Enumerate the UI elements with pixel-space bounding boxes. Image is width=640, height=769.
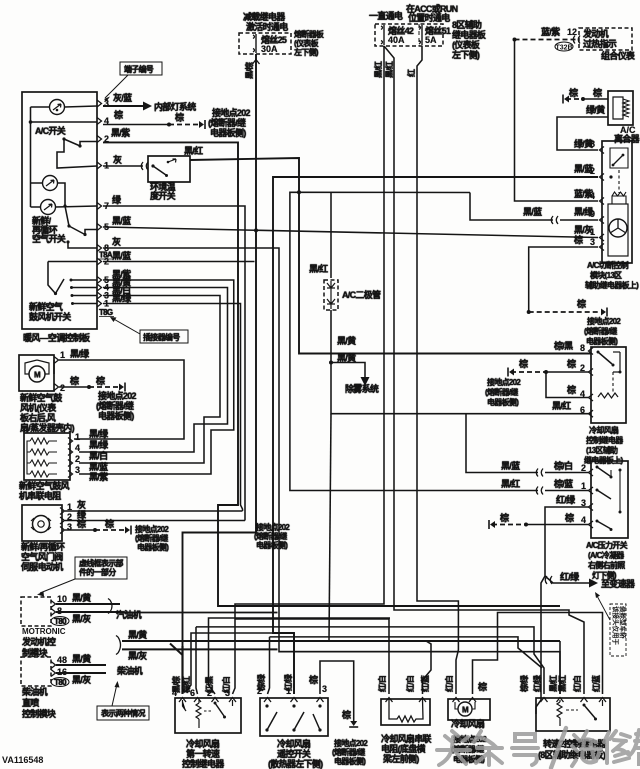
panel caption 暖风-空调控制板 xyxy=(23,332,91,343)
svg-text:灯下侧): 灯下侧) xyxy=(592,570,617,580)
svg-text:表示两种情况: 表示两种情况 xyxy=(100,708,145,718)
fan terminals xyxy=(453,698,477,703)
svg-text:继电器板: 继电器板 xyxy=(452,29,487,40)
bus wire y633 (pin2 black/blue trunk) to remote switch pin 1 xyxy=(191,632,294,634)
remote switch pin 1 xyxy=(283,633,298,702)
A/C diode 二极管 (dashed box) xyxy=(324,280,381,310)
bus y651.7 connecting pin8 trunk, engine bus corner, resistor and fan xyxy=(279,651,458,653)
svg-text:黑/蓝: 黑/蓝 xyxy=(89,461,108,472)
label: 冷却风扇第一转速控制继电器 xyxy=(182,738,225,769)
module pin 2 black/blue long wire to staircase xyxy=(187,163,611,694)
svg-text:离合器: 离合器 xyxy=(614,133,640,144)
label: MOTRONIC 发动机控制模块 xyxy=(21,627,66,658)
svg-text:2: 2 xyxy=(60,383,65,393)
svg-text:黑/红: 黑/红 xyxy=(373,61,383,78)
bus wire y612.5 petrol grey wire to grey trunk xyxy=(120,612,278,614)
svg-text:棕: 棕 xyxy=(518,358,528,369)
label: 8区辅助继电器板(仪表板左下侧) xyxy=(451,19,487,60)
svg-text:遥控开关: 遥控开关 xyxy=(277,748,311,759)
svg-text:黑/绿: 黑/绿 xyxy=(70,348,90,359)
svg-text:4: 4 xyxy=(581,515,586,525)
label: 转速2控制继电器(8区辅助继电器板) xyxy=(538,738,607,760)
svg-text:发动机: 发动机 xyxy=(582,28,609,39)
svg-text:左下侧): 左下侧) xyxy=(451,49,480,60)
pressure switch pin 1: black/red -> brown/blue xyxy=(103,192,593,494)
wire: panel pin 7 green trunk down to servo pin 2 xyxy=(103,206,245,521)
remote switch pin 2 from bus y636.9 xyxy=(256,637,542,702)
junction dot on S25 trunk at pin-1 wire xyxy=(254,228,258,232)
svg-text:6: 6 xyxy=(190,688,195,698)
svg-text:黑/蓝: 黑/蓝 xyxy=(523,206,542,217)
svg-text:(熔断器/继: (熔断器/继 xyxy=(135,533,168,543)
resistor terminals 1,4,2,3 with staircase wires up to panel xyxy=(68,432,80,478)
wire: resistor pin3 to panel pin 5b (black/purple) xyxy=(79,280,234,474)
fresh air blower motor 新鲜空气鼓风机 xyxy=(19,355,54,391)
svg-text:黑/绿: 黑/绿 xyxy=(112,293,132,304)
svg-text:棕: 棕 xyxy=(568,87,578,98)
svg-text:黑/灰: 黑/灰 xyxy=(72,674,91,685)
svg-text:8区辅助: 8区辅助 xyxy=(452,19,482,30)
svg-text:10: 10 xyxy=(57,594,67,604)
petrol wires end stubs before brace xyxy=(119,604,121,612)
label: 减载继电器激活时通电 xyxy=(243,11,288,32)
bus wire y626.9 relay1 pin6 feed and relay2 pin1 diagonal xyxy=(196,627,544,694)
fuse S42 and S51 box (dashed) xyxy=(375,24,451,46)
svg-text:控制继电器: 控制继电器 xyxy=(182,758,225,769)
note box: vertical text 该连接头仅用于(自动变速器车上) xyxy=(595,592,628,656)
svg-text:(熔断器/继: (熔断器/继 xyxy=(96,400,134,411)
svg-text:装舱型车轿: 装舱型车轿 xyxy=(619,605,628,639)
cooling fan speed-2 relay box (8区辅助继电器板) xyxy=(536,698,610,731)
branch: red/green to transmission 至变速器 xyxy=(545,571,636,589)
engine overheat indicator box (dashed) 发动机过热指示 xyxy=(579,28,632,50)
wires lamps 2,3 to terminal 7 row xyxy=(31,183,98,208)
svg-text:黑/绿: 黑/绿 xyxy=(89,439,109,450)
svg-text:4: 4 xyxy=(580,389,585,399)
diesel pin 16 black/grey xyxy=(51,667,106,685)
petrol bus pair black/yellow black/grey xyxy=(122,629,560,694)
A/C cutoff control module box xyxy=(602,141,632,263)
svg-text:新鲜空气鼓: 新鲜空气鼓 xyxy=(20,392,63,403)
cooling fan motor box 冷却风扇 xyxy=(448,699,490,720)
svg-text:黑/红: 黑/红 xyxy=(184,145,203,156)
wire: resistor right pin up to bus y651.7 xyxy=(423,641,432,694)
fresh air blower series resistor 新鲜空气鼓风机串联电阻 xyxy=(24,433,70,480)
fresh/recirculation air switch 新鲜/再循环空气开关 xyxy=(32,215,66,244)
svg-text:1: 1 xyxy=(75,432,80,442)
svg-text:直喷: 直喷 xyxy=(22,697,39,708)
label: A/C压力开关(A/C冷凝器右侧右前照灯下侧) xyxy=(586,540,628,580)
svg-text:30A: 30A xyxy=(261,44,278,54)
plate number VA116548 xyxy=(2,755,43,765)
svg-text:A/C开关: A/C开关 xyxy=(35,125,66,136)
svg-text:黑/红: 黑/红 xyxy=(384,61,394,78)
svg-text:新鲜空气鼓风: 新鲜空气鼓风 xyxy=(19,480,70,491)
svg-text:继电器板上): 继电器板上) xyxy=(584,455,623,465)
label: 在ACC或RUN位置时通电 xyxy=(406,3,458,23)
svg-text:9: 9 xyxy=(590,209,595,219)
note box 虚线框表示部件的一部分 with arrow xyxy=(37,557,127,597)
wire: blue/purple trunk down to A/C cutoff module pin 4 xyxy=(515,40,599,202)
svg-text:红/白: 红/白 xyxy=(405,675,415,692)
wire y619 branch to series resistor left pin xyxy=(235,619,389,694)
svg-text:黑/黄: 黑/黄 xyxy=(337,352,356,363)
wire: fan left pin up joining S51 drop xyxy=(456,650,458,694)
svg-text:2: 2 xyxy=(590,166,595,176)
label: 冷却风扇遥控开关(散热器左下侧) xyxy=(268,738,323,769)
wire: relay1 pin 6 vertical xyxy=(194,698,201,703)
relay2 terminals xyxy=(541,698,607,703)
A/C clutch 离合器 box with coil xyxy=(608,91,640,144)
svg-text:黑/黄: 黑/黄 xyxy=(72,653,91,664)
svg-text:接地点202: 接地点202 xyxy=(256,522,290,532)
svg-text:(熔断器/继: (熔断器/继 xyxy=(208,117,246,128)
svg-text:T32B: T32B xyxy=(555,45,572,52)
MOTRONIC pin 10 black/yellow xyxy=(51,592,120,608)
wire: fuse S25 output trunk (black/brown) down to staircase xyxy=(183,54,260,646)
svg-text:1: 1 xyxy=(590,227,595,237)
svg-text:冷却风扇: 冷却风扇 xyxy=(589,425,619,435)
label: 接地点202(熔断器/继电器板侧) right mid xyxy=(584,316,621,346)
svg-text:冷却风扇: 冷却风扇 xyxy=(451,718,485,729)
svg-text:接地点202: 接地点202 xyxy=(587,316,621,326)
wire: panel pin1b black/green staircase down xyxy=(103,304,243,512)
svg-text:灰/蓝: 灰/蓝 xyxy=(113,92,132,103)
wire: black/red branch down through A/C diode xyxy=(309,193,331,279)
blower switch 新鲜空气鼓风机开关 xyxy=(48,262,97,296)
svg-text:辅助继电器板上): 辅助继电器板上) xyxy=(585,280,639,290)
series resistor terminals with arrows xyxy=(386,698,427,703)
svg-text:绿/黄: 绿/黄 xyxy=(586,104,605,115)
pressure switch pin 2: black/blue -> brown/white xyxy=(466,414,593,477)
wire: terminal 2 black/purple trunk down staircase to relay2 pin 4 xyxy=(103,142,560,606)
brace before bus labels xyxy=(116,636,121,655)
svg-text:电器板侧): 电器板侧) xyxy=(256,540,288,550)
connector T32B xyxy=(555,42,573,52)
svg-text:T80: T80 xyxy=(54,617,67,626)
svg-text:6: 6 xyxy=(580,405,585,415)
svg-text:黑/红: 黑/红 xyxy=(309,263,328,274)
svg-text:冷却风扇串联: 冷却风扇串联 xyxy=(381,733,433,744)
svg-text:灰: 灰 xyxy=(113,154,122,165)
A/C switch 开关 xyxy=(35,125,82,148)
svg-text:过热指示: 过热指示 xyxy=(583,38,617,49)
svg-text:黑/紫: 黑/紫 xyxy=(89,471,108,482)
svg-text:除雾系统: 除雾系统 xyxy=(345,383,379,394)
svg-text:接地点202: 接地点202 xyxy=(98,390,137,401)
servo pin 2 green wire right joins trunk xyxy=(60,509,245,524)
svg-text:M: M xyxy=(462,706,469,715)
svg-text:黑/黄: 黑/黄 xyxy=(72,592,91,603)
svg-text:2: 2 xyxy=(580,363,585,373)
svg-text:第一转速: 第一转速 xyxy=(186,748,220,759)
svg-text:红/蓝: 红/蓝 xyxy=(591,675,601,692)
svg-text:A/C二极管: A/C二极管 xyxy=(342,289,381,300)
svg-text:3: 3 xyxy=(322,684,327,694)
wire: trunk x279 (panel pin 8 grey) down to bus y651.7 xyxy=(103,248,560,694)
label: 接地点202(熔断器/继电器板侧) bottom center xyxy=(332,738,368,766)
svg-text:2: 2 xyxy=(207,688,212,698)
svg-text:A/C压力开关: A/C压力开关 xyxy=(586,540,628,550)
svg-text:电器板侧): 电器板侧) xyxy=(487,397,519,407)
svg-text:减载继电器: 减载继电器 xyxy=(243,11,286,22)
relay pin 2 brown from ground 202 xyxy=(508,358,593,377)
wire: fan right pin brown up and over to relay2 pin 4 xyxy=(473,613,603,695)
cooling fan control relay box 冷却风扇控制继电器 xyxy=(591,347,626,423)
svg-text:接地点202: 接地点202 xyxy=(487,377,521,387)
svg-text:虚线框表示部: 虚线框表示部 xyxy=(79,558,123,568)
svg-text:电器板侧): 电器板侧) xyxy=(210,127,246,138)
svg-text:电器板侧): 电器板侧) xyxy=(98,410,134,421)
svg-text:T80: T80 xyxy=(54,678,67,687)
svg-text:黑/红: 黑/红 xyxy=(501,478,520,489)
wire: diode output down to demister junction xyxy=(329,310,591,641)
wire labels between resistor and staircase xyxy=(89,428,109,482)
label: 接地点202(熔断器/继电器板侧) servo xyxy=(135,524,169,552)
wire: green/yellow from clutch to cutoff module pin 8 xyxy=(557,104,608,150)
svg-text:(熔断器/继: (熔断器/继 xyxy=(485,387,518,397)
svg-text:接地点202: 接地点202 xyxy=(212,107,251,118)
note box 表示两种情况 with arrow xyxy=(97,681,149,720)
ground point 202 (brown, dashed) for clutch xyxy=(563,87,608,104)
svg-text:接地点202: 接地点202 xyxy=(135,524,169,534)
svg-text:棕: 棕 xyxy=(76,518,86,529)
watermark 头条号/海修君 xyxy=(437,728,640,768)
connector designator T8G xyxy=(99,308,114,317)
svg-text:一直通电: 一直通电 xyxy=(369,10,403,21)
pressure switch pin 4 brown from ground 202 xyxy=(489,512,593,529)
label: 接地点202(熔断器/继电器板侧) below blower xyxy=(96,390,137,421)
label: 接地点202(熔断器/继电器板侧) pressure switch xyxy=(254,522,290,550)
svg-text:(13区辅助: (13区辅助 xyxy=(586,445,618,455)
svg-text:8: 8 xyxy=(590,139,595,149)
svg-text:48: 48 xyxy=(57,655,67,665)
svg-text:棕/白: 棕/白 xyxy=(553,460,572,471)
module pin 3 brown to ground 202 xyxy=(529,234,604,312)
svg-text:(熔断器/继: (熔断器/继 xyxy=(254,531,287,541)
label: 冷却风扇控制继电器(13区辅助继电器板上) xyxy=(584,425,624,465)
fuse S25 box (fuse box, dashed) xyxy=(239,33,291,54)
pin numbers above relay1 xyxy=(172,688,230,698)
svg-text:黑/黄: 黑/黄 xyxy=(337,335,356,346)
relay pin 6 black/red xyxy=(552,400,593,417)
svg-text:控制模块: 控制模块 xyxy=(22,708,57,719)
svg-text:黑/蓝: 黑/蓝 xyxy=(501,460,520,471)
wire: fuse S51 output (black/red) trunk down xyxy=(406,46,458,650)
relay1 pin 2 and pin 3 terminals xyxy=(212,698,237,703)
module pin 9 black/green from temp switch via connector xyxy=(470,193,604,225)
svg-text:蓝/紫: 蓝/紫 xyxy=(541,26,560,37)
module pin 8 green/yellow xyxy=(574,138,604,154)
lamp symbol 3 xyxy=(41,200,56,215)
svg-text:电器板侧): 电器板侧) xyxy=(334,756,366,766)
label: 冷却风扇 xyxy=(451,718,485,729)
label: 汽油机 with brace xyxy=(108,599,142,621)
fresh/recirc air flap servo motor box xyxy=(22,505,62,541)
diesel pin 48 black/yellow xyxy=(51,653,106,669)
svg-text:棕: 棕 xyxy=(341,709,351,720)
A/C pressure switch box A/C压力开关 xyxy=(0,0,628,538)
svg-text:左下侧): 左下侧) xyxy=(293,47,319,57)
svg-text:棕: 棕 xyxy=(566,384,576,395)
svg-text:电器板侧): 电器板侧) xyxy=(586,336,618,346)
label: 柴油机直喷控制模块 xyxy=(21,686,57,719)
servo pin 3 brown to ground 202 xyxy=(60,518,131,535)
svg-text:板右后,风: 板右后,风 xyxy=(20,412,56,423)
svg-text:棕: 棕 xyxy=(104,518,114,529)
svg-text:风机(仪表: 风机(仪表 xyxy=(20,402,57,413)
svg-text:鼓风机开关: 鼓风机开关 xyxy=(29,311,71,322)
wire: branch to defogger system 除雾系统 xyxy=(331,363,379,395)
svg-text:红: 红 xyxy=(406,69,416,77)
svg-text:黑/紫: 黑/紫 xyxy=(111,127,130,138)
svg-text:空气风门阀: 空气风门阀 xyxy=(21,551,63,562)
svg-text:棕/绿: 棕/绿 xyxy=(519,674,529,693)
svg-text:度开关: 度开关 xyxy=(150,190,176,201)
svg-text:12: 12 xyxy=(567,27,577,37)
svg-text:1: 1 xyxy=(581,481,586,491)
svg-text:黑/灰: 黑/灰 xyxy=(128,650,147,661)
svg-text:棕: 棕 xyxy=(95,375,105,386)
svg-text:内部灯系统: 内部灯系统 xyxy=(154,101,196,112)
svg-text:5: 5 xyxy=(104,222,109,232)
module pin 4 blue/purple xyxy=(574,188,604,205)
svg-text:棕: 棕 xyxy=(174,112,184,123)
wire: junction to module pin 9 via diode branch xyxy=(299,191,470,193)
label: 一直通电 xyxy=(369,10,403,21)
label: 新鲜空气鼓风机(仪表板右后,风扇/蒸发器壳内) xyxy=(20,392,75,433)
svg-text:梁左前侧): 梁左前侧) xyxy=(382,753,419,764)
cooling fan remote thermo switch box xyxy=(0,0,328,736)
svg-text:发动机控: 发动机控 xyxy=(21,636,56,647)
svg-text:暖风—空调控制板: 暖风—空调控制板 xyxy=(23,332,91,343)
wire: A/C switch to terminal 2 and loop to terminal 1 xyxy=(57,139,97,168)
svg-text:(仪表板: (仪表板 xyxy=(294,38,320,48)
svg-text:灰: 灰 xyxy=(77,499,86,510)
svg-text:1: 1 xyxy=(60,350,65,360)
diesel direct injection control module (dashed box) xyxy=(21,657,51,686)
svg-text:5A: 5A xyxy=(425,35,437,45)
svg-text:棕/绿: 棕/绿 xyxy=(256,673,266,692)
label: A/C切断控制模块(13区辅助继电器板上) xyxy=(585,260,639,290)
relay pin 4 brown (jumper from pin 2 dot) xyxy=(546,372,593,401)
svg-text:件的一部分: 件的一部分 xyxy=(79,567,116,577)
heater/AC control panel box 暖风-空调控制板 xyxy=(22,92,97,329)
wire: resistor pin2 to panel pin 3 (black/white) xyxy=(79,296,220,464)
svg-text:冷却风扇: 冷却风扇 xyxy=(277,738,311,749)
svg-text:红/白: 红/白 xyxy=(377,675,387,692)
svg-text:8: 8 xyxy=(580,343,585,353)
wire: blue/purple to overheat indicator (dashed) xyxy=(513,26,581,44)
svg-text:机串联电阻: 机串联电阻 xyxy=(19,490,61,501)
ambient temperature switch 环境温度开关 xyxy=(103,156,190,201)
label: 柴油机 xyxy=(116,665,143,676)
svg-text:棕: 棕 xyxy=(113,109,123,120)
connector label box 插接器编号 with arrow xyxy=(110,317,188,343)
svg-text:棕: 棕 xyxy=(592,87,602,98)
svg-text:(熔断器/继: (熔断器/继 xyxy=(332,747,365,757)
relay pin 8 brown/black xyxy=(553,340,593,355)
svg-text:柴油机: 柴油机 xyxy=(116,665,143,676)
lamp symbol (panel illumination) xyxy=(50,100,65,115)
svg-text:棕: 棕 xyxy=(308,674,318,685)
wire labels on panel terminals xyxy=(111,92,132,304)
svg-text:黑/红: 黑/红 xyxy=(552,400,571,411)
svg-text:黑/绿: 黑/绿 xyxy=(89,428,109,439)
internal bus wire left column xyxy=(29,107,97,207)
label: 接地点202(熔断器/继电器板侧) relay left xyxy=(485,377,521,407)
svg-text:柴油机: 柴油机 xyxy=(21,686,48,697)
svg-text:熔断器板: 熔断器板 xyxy=(294,29,325,39)
svg-text:插接器编号: 插接器编号 xyxy=(143,332,180,342)
label: 冷却风扇串联电阻(底盘横梁左前侧) xyxy=(381,733,433,764)
svg-text:棕: 棕 xyxy=(69,375,79,386)
terminal number label box 端子编号 with arrow xyxy=(104,62,162,102)
svg-text:激活时通电: 激活时通电 xyxy=(246,21,288,32)
svg-text:黑/灰: 黑/灰 xyxy=(72,613,91,624)
svg-text:棕/蓝: 棕/蓝 xyxy=(553,478,573,489)
label: 熔断器板(仪表板左下侧) xyxy=(293,29,325,57)
svg-text:(熔断器/继: (熔断器/继 xyxy=(584,326,617,336)
svg-text:红/白: 红/白 xyxy=(444,675,454,692)
wire: relay1 pin 2 feed y618 xyxy=(209,618,391,694)
module pin 1 black/grey long wire from panel pin 5 xyxy=(103,224,604,241)
svg-text:T8A: T8A xyxy=(99,251,113,260)
svg-text:3: 3 xyxy=(581,498,586,508)
svg-text:黑/蓝: 黑/蓝 xyxy=(112,250,131,261)
svg-text:4: 4 xyxy=(590,191,595,201)
wire: remote switch pin 3 loop to ground xyxy=(308,661,358,727)
MOTRONIC engine control module (dashed box) xyxy=(21,597,51,626)
cooling fan series resistor box xyxy=(381,699,430,725)
svg-text:黑/黄: 黑/黄 xyxy=(128,629,147,640)
label: 接地点202(熔断器/继电器板侧) under fan xyxy=(451,734,487,764)
svg-text:棕: 棕 xyxy=(564,512,574,523)
pressure switch pin 3: red/green down to transmission xyxy=(536,494,593,714)
svg-text:黑/红: 黑/红 xyxy=(557,675,567,692)
svg-text:右侧右前照: 右侧右前照 xyxy=(587,560,625,570)
svg-text:接地点202: 接地点202 xyxy=(334,738,368,748)
svg-text:新鲜空气: 新鲜空气 xyxy=(29,301,63,312)
svg-text:棕: 棕 xyxy=(573,234,583,245)
svg-text:红/绿: 红/绿 xyxy=(283,673,293,691)
connector T80 (petrol) xyxy=(51,617,69,627)
svg-text:伺服电动机: 伺服电动机 xyxy=(20,561,63,572)
svg-text:模块(13区: 模块(13区 xyxy=(590,270,622,280)
lamp symbol 2 xyxy=(43,176,58,191)
svg-text:黑/蓝: 黑/蓝 xyxy=(112,215,131,226)
label: 接地点202 (熔断器/继电器板侧) top left xyxy=(208,107,251,138)
svg-text:红/绿: 红/绿 xyxy=(560,571,580,582)
svg-text:红/白: 红/白 xyxy=(572,675,582,692)
svg-text:3: 3 xyxy=(590,237,595,247)
svg-text:汽油机: 汽油机 xyxy=(116,609,142,620)
svg-text:4: 4 xyxy=(172,688,177,698)
svg-text:M: M xyxy=(34,371,41,380)
svg-text:空气开关: 空气开关 xyxy=(32,233,66,244)
svg-text:冷却风扇: 冷却风扇 xyxy=(186,738,220,749)
connector designator T8A xyxy=(99,251,114,260)
label: 新鲜/再循环空气风门阀伺服电动机 xyxy=(20,541,65,572)
svg-text:黑/红: 黑/红 xyxy=(548,675,558,692)
svg-text:位置时通电: 位置时通电 xyxy=(408,12,450,23)
svg-text:新鲜/再循环: 新鲜/再循环 xyxy=(21,541,65,552)
cooling fan first speed control relay box xyxy=(175,698,241,733)
svg-text:棕: 棕 xyxy=(499,512,509,523)
svg-text:棕/黑: 棕/黑 xyxy=(553,340,573,351)
blower pin 1 black/green wire loop to resistor pin 1 xyxy=(54,348,184,439)
svg-text:组合仪表: 组合仪表 xyxy=(601,50,636,61)
